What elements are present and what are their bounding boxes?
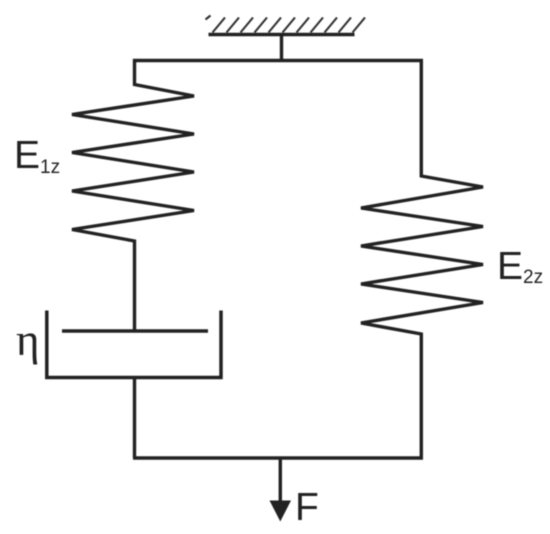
svg-text:1z: 1z [40, 157, 60, 178]
svg-text:E: E [14, 134, 40, 177]
svg-text:η: η [16, 315, 40, 365]
svg-text:2z: 2z [523, 267, 543, 288]
svg-text:F: F [295, 486, 319, 529]
svg-text:E: E [497, 245, 523, 288]
